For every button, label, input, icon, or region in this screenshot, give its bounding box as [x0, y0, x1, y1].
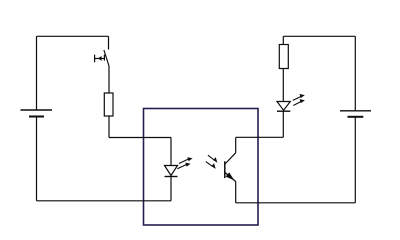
switch S1 blade (open): [104, 50, 109, 66]
wire: switch S1 to resistor R1: [108, 66, 110, 93]
LED D2 emission arrows: [293, 94, 305, 106]
optocoupler U1 package box: [144, 109, 259, 226]
wire: left loop bottom horizontal: [37, 200, 172, 202]
resistor R2: [279, 45, 288, 69]
LED D1 (optocoupler emitter diode): [165, 166, 178, 177]
wire: left loop top horizontal: [37, 35, 109, 37]
light arrows into Q1 base: [206, 155, 218, 169]
battery B1: [21, 110, 53, 117]
phototransistor Q1: [225, 137, 236, 203]
wire: left loop left vertical (battery top to top wire): [36, 36, 38, 110]
wire: top wire down to switch S1 top contact: [108, 36, 110, 49]
wire: LED D2 cathode down: [282, 111, 284, 137]
wire: right loop top horizontal: [283, 35, 355, 37]
LED D2 (indicator): [277, 102, 290, 112]
wire: horizontal to phototransistor Q1 collector: [236, 136, 284, 138]
wire: down to LED D1: [170, 138, 172, 166]
wire: top to resistor R2: [282, 36, 284, 44]
wire: horizontal into box to LED D1 anode: [109, 137, 171, 139]
switch S1 actuator arrow: [95, 55, 105, 63]
battery B2: [340, 111, 371, 117]
wire: bottom up to battery B2 negative: [354, 117, 356, 203]
resistor R1: [104, 93, 113, 116]
wire: LED D1 cathode down: [170, 177, 172, 201]
wire: battery B1 negative down to bottom wire: [36, 117, 38, 201]
wire: battery B2 positive up to top wire: [354, 36, 356, 111]
LED D1 emission arrows: [177, 157, 192, 169]
wire: right loop bottom horizontal: [236, 202, 356, 204]
wire: resistor R1 down: [108, 116, 110, 138]
wire: resistor R2 to LED D2: [282, 69, 284, 102]
